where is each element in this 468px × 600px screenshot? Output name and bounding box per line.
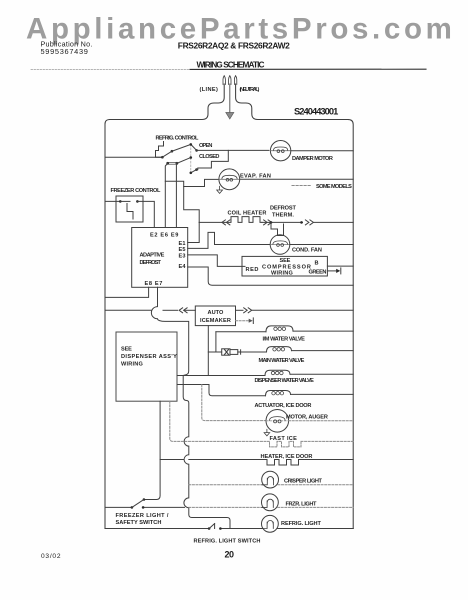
damper motor M1 <box>270 141 290 161</box>
dashed feed from dispenser box to fast ice heater <box>170 401 268 441</box>
svg-text:5995367439: 5995367439 <box>41 47 89 56</box>
auto icemaker box <box>195 306 235 326</box>
power plug prongs <box>223 76 237 85</box>
svg-text:E3: E3 <box>179 253 186 259</box>
wire left bus to freezer control <box>105 200 120 202</box>
refrig light lamp <box>262 515 279 532</box>
svg-text:SEE: SEE <box>121 347 132 353</box>
wire switch to E6 <box>164 181 166 227</box>
wire icemaker pin down to valve rows <box>207 326 209 376</box>
header publication block <box>41 40 291 70</box>
svg-text:OPEN: OPEN <box>199 143 213 149</box>
svg-text:CRISPER LIGHT: CRISPER LIGHT <box>284 478 322 484</box>
dashed feed to auger motor <box>202 385 266 421</box>
watermark AppliancePartsPros.com <box>26 13 456 46</box>
wire left bus to refrig control common <box>105 156 162 158</box>
wire cond fan to right bus <box>290 244 353 246</box>
wire icemaker pin to inline connector <box>208 351 221 353</box>
svg-text:RED: RED <box>246 267 259 273</box>
svg-text:(NEUTRAL): (NEUTRAL) <box>240 87 260 93</box>
bus drop from valve row to lower rows <box>183 376 230 529</box>
wire switch to E9 <box>175 163 177 227</box>
dashed frzr light row <box>189 506 263 508</box>
svg-text:AUTO: AUTO <box>208 310 225 316</box>
wire dispenser box pin down to heater row and freezer switch <box>144 401 160 499</box>
refrig light switch on bottom border <box>208 524 222 530</box>
bottom border / refrig light row <box>105 528 353 530</box>
inline connector plug pair <box>222 349 241 355</box>
dispenser assembly box <box>116 332 177 401</box>
svg-text:SOME MODELS: SOME MODELS <box>316 184 352 190</box>
wire E7 with hop loop and drop to bus <box>151 307 188 376</box>
main water valve solenoid coil <box>267 347 292 352</box>
wire pin E1 riser to defrost heater row <box>188 222 200 242</box>
connector chevrons after heater (right pair) <box>264 220 272 225</box>
svg-text:FRZR. LIGHT: FRZR. LIGHT <box>286 501 317 507</box>
wire freezer switch to frzr light <box>143 506 184 508</box>
defrost coil heater element <box>199 217 262 223</box>
fast ice heater element (dashed) <box>268 441 302 447</box>
wire evap fan to right bus <box>240 178 354 180</box>
label DEFROST THERM. <box>270 206 296 219</box>
wire pin E8 to left bus <box>105 287 149 297</box>
svg-text:ICEMAKER: ICEMAKER <box>200 318 231 324</box>
connector chevrons on icemaker feed <box>179 308 187 313</box>
dashed crisper light to right bus <box>278 484 353 486</box>
svg-text:MOTOR, AUGER: MOTOR, AUGER <box>286 415 328 421</box>
svg-text:WIRING: WIRING <box>121 362 143 368</box>
svg-text:S240443001: S240443001 <box>294 107 338 117</box>
freezer light safety switch <box>105 498 145 509</box>
defrost row with thermostat junction dots <box>262 221 303 224</box>
defrost thermostat stepped element <box>271 222 284 235</box>
svg-text:REFRIG. LIGHT: REFRIG. LIGHT <box>281 521 321 527</box>
wire CLOSED contact staircase to damper row <box>197 150 229 169</box>
svg-text:GREEN: GREEN <box>309 269 327 275</box>
ground chassis at evap fan <box>217 186 223 193</box>
right border NEUTRAL bus <box>348 120 353 529</box>
svg-text:THERM.: THERM. <box>272 212 294 218</box>
auger motor M4 <box>266 410 289 433</box>
svg-text:FRS26R2AQ2 & FRS26R2AW2: FRS26R2AQ2 & FRS26R2AW2 <box>178 41 290 51</box>
svg-text:COIL HEATER: COIL HEATER <box>228 210 267 216</box>
svg-text:I/M WATER VALVE: I/M WATER VALVE <box>263 337 306 343</box>
dashed aux icemaker connector wire <box>236 318 254 324</box>
cond fan motor M3 <box>270 235 290 255</box>
schematic sheet number S240443001 <box>294 107 338 117</box>
svg-text:03/02: 03/02 <box>41 553 61 560</box>
wire dispenser valve to right bus <box>290 373 353 375</box>
wire dispenser box to dispenser water valve row <box>177 375 265 377</box>
refrig control thermostat sensing element <box>156 142 164 158</box>
wire pin E7 down <box>157 287 159 306</box>
ground prong wire with arrow <box>226 84 234 119</box>
compressor wiring box <box>242 256 327 276</box>
svg-text:SAFETY SWITCH: SAFETY SWITCH <box>116 520 162 526</box>
svg-text:EVAP. FAN: EVAP. FAN <box>240 174 271 180</box>
svg-text:E5: E5 <box>179 247 186 253</box>
I/M water valve solenoid coil <box>216 326 293 332</box>
wire actuator to right bus <box>291 393 354 395</box>
wire pin E4 to right bus lower path <box>188 267 354 285</box>
heater ice door element <box>160 460 353 466</box>
wire refrig control to evap fan feed <box>165 163 219 186</box>
svg-text:DISPENSER WATER VALVE: DISPENSER WATER VALVE <box>255 378 315 384</box>
wire main water valve to right bus <box>292 350 354 352</box>
wire icemaker to right bus with connector chevrons <box>236 308 354 313</box>
ground chassis at auger motor <box>264 429 270 436</box>
svg-text:SEE: SEE <box>280 258 291 264</box>
svg-text:E4: E4 <box>179 264 187 270</box>
label FREEZER LIGHT / SAFETY SWITCH <box>116 513 169 526</box>
adaptive defrost control board <box>132 228 188 288</box>
wire left bus to icemaker row <box>105 309 195 311</box>
svg-text:DEFROST: DEFROST <box>140 260 162 266</box>
refrig control switch contacts and arms <box>161 143 198 174</box>
dispenser water valve solenoid coil <box>265 370 290 375</box>
svg-text:WIRING: WIRING <box>271 270 293 276</box>
left border LINE bus <box>105 120 110 529</box>
svg-text:WIRING SCHEMATIC: WIRING SCHEMATIC <box>197 60 265 70</box>
wire damper motor to right bus <box>291 150 353 152</box>
wire switch feed to E1 riser top <box>184 187 200 223</box>
svg-text:ACTUATOR, ICE DOOR: ACTUATOR, ICE DOOR <box>255 403 312 409</box>
svg-text:DEFROST: DEFROST <box>270 206 296 212</box>
wire pin E5 to cond fan <box>188 232 271 248</box>
svg-text:FREEZER CONTROL: FREEZER CONTROL <box>111 188 161 194</box>
svg-text:REFRIG. LIGHT SWITCH: REFRIG. LIGHT SWITCH <box>194 539 261 545</box>
svg-text:B: B <box>315 261 319 267</box>
wire NEUTRAL lead into right bus <box>236 84 349 120</box>
dashed wire auger motor to right bus <box>289 420 354 422</box>
wire GREEN with connector arrow <box>327 268 340 274</box>
wire pin E3 to compressor RED <box>188 255 245 267</box>
crisper light lamp <box>262 471 279 488</box>
wire B to right bus <box>327 265 353 267</box>
dashed frzr light to right bus <box>278 506 354 508</box>
actuator ice door solenoid coil <box>266 391 291 396</box>
dashed crisper light row <box>189 484 263 486</box>
connector chevrons before right bus <box>305 220 313 225</box>
wire dispenser box to actuator row <box>177 385 266 396</box>
svg-text:DISPENSER ASS'Y: DISPENSER ASS'Y <box>121 354 177 360</box>
svg-text:E8 E7: E8 E7 <box>145 281 163 287</box>
dashed wire fast ice to right bus <box>301 440 353 442</box>
svg-text:20: 20 <box>225 549 235 559</box>
evap fan motor M2 <box>219 169 240 190</box>
svg-text:(LINE): (LINE) <box>200 87 219 93</box>
wire defrost row to right bus <box>314 221 353 223</box>
svg-text:ADAPTIVE: ADAPTIVE <box>140 253 165 259</box>
svg-text:DAMPER MOTOR: DAMPER MOTOR <box>292 156 333 162</box>
freezer control box <box>116 196 143 222</box>
wire I/M valve feed riser <box>215 332 217 352</box>
wire OPEN contact to damper motor row <box>197 149 269 151</box>
header rule line <box>31 68 426 70</box>
svg-text:COND. FAN: COND. FAN <box>292 248 322 254</box>
svg-text:E1: E1 <box>179 241 186 247</box>
legend dashed SOME MODELS <box>292 184 352 190</box>
svg-text:REFRIG. CONTROL: REFRIG. CONTROL <box>156 136 199 142</box>
svg-text:FREEZER LIGHT /: FREEZER LIGHT / <box>116 513 169 519</box>
svg-text:CLOSED: CLOSED <box>199 154 220 160</box>
wire freezer control to E2 <box>137 201 154 227</box>
wire I/M valve to right bus <box>293 330 353 332</box>
freezer control switch contacts <box>119 200 139 203</box>
wire connector to main water valve <box>241 351 267 353</box>
connector chevrons on defrost row (left pair) <box>222 220 230 225</box>
freezer control thermostat sensing element <box>127 204 133 220</box>
svg-text:MAIN WATER VALVE: MAIN WATER VALVE <box>259 358 305 364</box>
wire LINE lead into left bus <box>110 84 225 120</box>
frzr light lamp <box>262 494 279 511</box>
svg-text:E2 E6 E9: E2 E6 E9 <box>150 232 179 238</box>
svg-text:COMPRESSOR: COMPRESSOR <box>262 264 311 270</box>
